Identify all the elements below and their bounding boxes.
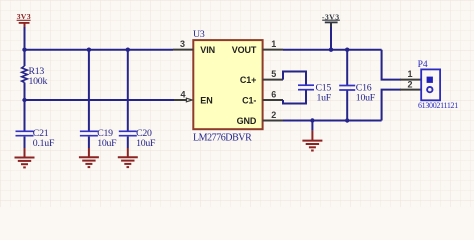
junction ground	[310, 118, 314, 122]
wire 3V3 stem	[24, 27, 26, 50]
svg-text:EN: EN	[200, 95, 212, 105]
wire to P4 pin1	[382, 50, 401, 80]
pin 1 VOUT	[232, 39, 283, 55]
wire to P4 pin2	[382, 90, 401, 121]
wire EN rail	[25, 99, 176, 101]
svg-text:P4: P4	[418, 60, 428, 70]
svg-text:VIN: VIN	[200, 45, 215, 55]
capacitor C19	[80, 50, 117, 149]
ground (C21)	[15, 148, 35, 167]
ground (C19)	[79, 148, 99, 167]
svg-text:3: 3	[180, 39, 185, 49]
wire -3V3 stem	[330, 27, 332, 50]
capacitor C15	[283, 72, 332, 104]
svg-text:U3: U3	[193, 29, 205, 40]
junction -3V3	[329, 48, 333, 52]
svg-text:10uF: 10uF	[356, 93, 376, 104]
svg-text:C1+: C1+	[240, 75, 256, 85]
svg-text:10uF: 10uF	[97, 138, 117, 149]
svg-text:2: 2	[271, 110, 276, 120]
svg-text:1uF: 1uF	[317, 92, 332, 103]
junction C20 top	[126, 48, 130, 52]
svg-text:R13: R13	[29, 66, 45, 77]
connector P4	[400, 60, 458, 110]
resistor R13	[22, 50, 48, 100]
capacitor C20	[119, 50, 156, 149]
svg-text:LM2776DBVR: LM2776DBVR	[193, 132, 252, 143]
svg-text:1: 1	[271, 39, 276, 49]
pin 5 C1+	[240, 69, 283, 85]
svg-text:10uF: 10uF	[136, 138, 156, 149]
junction 3V3/R13	[22, 48, 26, 52]
IC U3 LM2776DBVR body	[193, 29, 263, 143]
junction C19 top	[87, 48, 91, 52]
capacitor C21	[16, 100, 55, 149]
svg-text:C1-: C1-	[242, 95, 256, 105]
wire 3V3 rail	[25, 49, 174, 51]
power port 3V3	[17, 12, 31, 28]
svg-text:1: 1	[407, 69, 412, 79]
svg-text:5: 5	[271, 69, 276, 79]
svg-text:VOUT: VOUT	[232, 45, 257, 55]
svg-text:2: 2	[407, 80, 412, 90]
svg-text:GND: GND	[237, 116, 257, 126]
junction R13/EN/C21	[22, 98, 26, 102]
pin 4 EN	[174, 90, 213, 106]
pin 2 GND	[237, 110, 283, 126]
pin 3 VIN	[173, 39, 215, 55]
wire GND rail	[283, 120, 382, 122]
power port -3V3	[322, 12, 340, 28]
svg-text:0.1uF: 0.1uF	[33, 138, 55, 149]
junction C16 top	[345, 48, 349, 52]
svg-text:61300211121: 61300211121	[418, 101, 458, 110]
ground (C20)	[118, 148, 138, 167]
ground (chip GND net)	[302, 121, 322, 151]
junction C16 bottom	[345, 118, 349, 122]
wire VOUT rail	[283, 49, 382, 51]
svg-text:100k: 100k	[29, 76, 48, 87]
svg-text:4: 4	[180, 90, 185, 100]
pin 6 C1-	[242, 90, 283, 106]
svg-text:6: 6	[271, 90, 276, 100]
capacitor C16	[339, 50, 376, 121]
